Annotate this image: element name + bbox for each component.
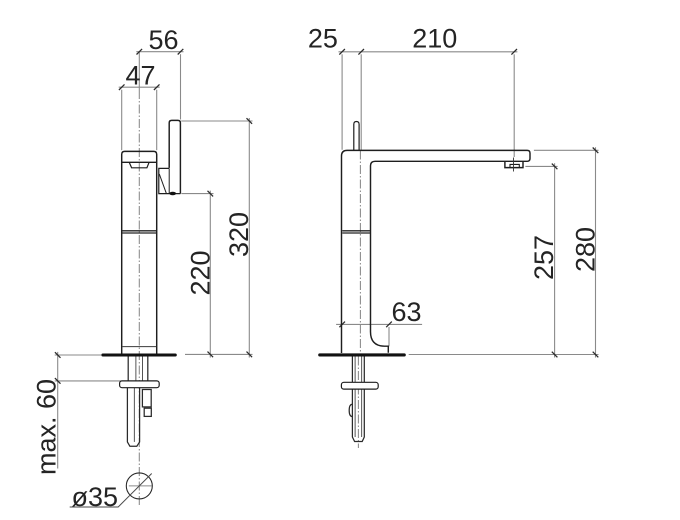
svg-text:47: 47 — [125, 60, 155, 90]
svg-text:320: 320 — [224, 212, 254, 257]
svg-text:max. 60: max. 60 — [32, 379, 62, 475]
svg-text:56: 56 — [148, 25, 178, 55]
svg-text:220: 220 — [186, 250, 216, 295]
svg-text:25: 25 — [308, 24, 338, 54]
svg-text:ø35: ø35 — [72, 482, 119, 512]
svg-text:280: 280 — [571, 227, 601, 272]
svg-text:63: 63 — [391, 297, 421, 327]
svg-text:210: 210 — [412, 24, 457, 54]
svg-text:257: 257 — [529, 235, 559, 280]
